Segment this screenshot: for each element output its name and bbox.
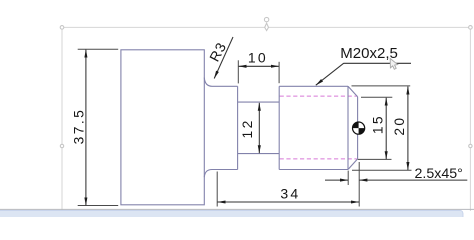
svg-text:15: 15: [371, 114, 386, 134]
svg-text:20: 20: [392, 116, 407, 136]
svg-text:34: 34: [280, 185, 300, 201]
svg-text:37.5: 37.5: [71, 108, 86, 144]
svg-text:10: 10: [248, 50, 268, 66]
svg-text:2.5x45°: 2.5x45°: [415, 166, 463, 182]
svg-text:R3: R3: [206, 39, 229, 64]
svg-text:12: 12: [240, 118, 255, 138]
svg-text:M20x2,5: M20x2,5: [340, 45, 398, 62]
